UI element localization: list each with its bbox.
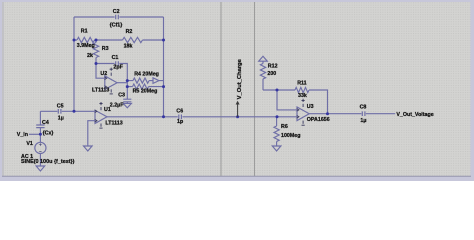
svg-text:R6: R6 — [281, 124, 288, 130]
svg-text:U1: U1 — [104, 107, 111, 113]
svg-text:R11: R11 — [297, 81, 306, 87]
svg-text:V1: V1 — [26, 141, 33, 147]
svg-text:R3: R3 — [102, 46, 109, 52]
svg-text:1µ: 1µ — [360, 118, 366, 124]
svg-text:R2: R2 — [126, 29, 133, 35]
svg-text:C3: C3 — [118, 93, 125, 99]
svg-text:V_Out_Charge: V_Out_Charge — [237, 58, 243, 99]
svg-text:C8: C8 — [360, 104, 367, 110]
svg-text:2pF: 2pF — [113, 65, 123, 71]
svg-text:1µ: 1µ — [58, 115, 64, 121]
svg-text:C2: C2 — [113, 9, 120, 15]
svg-text:C6: C6 — [176, 108, 183, 114]
svg-text:33k: 33k — [298, 93, 307, 99]
svg-text:U2: U2 — [100, 71, 107, 77]
svg-text:U3: U3 — [307, 104, 314, 110]
svg-text:{Cx}: {Cx} — [43, 130, 54, 136]
svg-text:18k: 18k — [124, 44, 133, 50]
svg-text:{Cf1}: {Cf1} — [110, 23, 123, 29]
svg-text:SINE(0 100u {f_test}): SINE(0 100u {f_test}) — [21, 159, 75, 165]
svg-text:R1: R1 — [81, 29, 88, 35]
svg-text:2k: 2k — [87, 53, 93, 59]
svg-text:100Meg: 100Meg — [281, 133, 300, 139]
svg-text:3.9Meg: 3.9Meg — [77, 43, 95, 49]
svg-text:OPA1656: OPA1656 — [307, 117, 330, 123]
svg-text:C1: C1 — [112, 55, 119, 61]
svg-text:LT1113: LT1113 — [105, 121, 122, 127]
svg-text:1p: 1p — [177, 119, 184, 125]
svg-text:C5: C5 — [57, 104, 64, 110]
svg-text:LT1113: LT1113 — [92, 87, 109, 93]
svg-text:R5 20Meg: R5 20Meg — [133, 88, 158, 94]
svg-text:C4: C4 — [42, 120, 49, 126]
svg-text:V_Out_Voltage: V_Out_Voltage — [396, 112, 433, 118]
svg-text:V_In: V_In — [17, 132, 28, 138]
svg-text:R4 20Meg: R4 20Meg — [134, 72, 159, 78]
svg-text:R12: R12 — [268, 63, 278, 69]
svg-text:2.2µF: 2.2µF — [110, 103, 124, 109]
svg-text:200: 200 — [267, 71, 276, 77]
